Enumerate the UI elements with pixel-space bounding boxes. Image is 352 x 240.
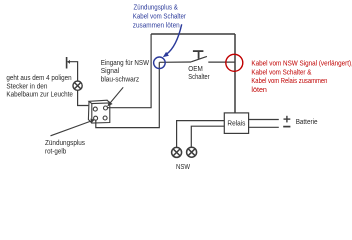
wire relay to lamp NSW left xyxy=(177,121,225,148)
wire plug to lamp xyxy=(68,62,78,82)
svg-text:Eingang für NSW: Eingang für NSW xyxy=(101,60,150,67)
svg-text:rot-gelb: rot-gelb xyxy=(45,148,66,155)
connector plug (4-pin Stecker to Leuchte) xyxy=(67,57,70,69)
lamp NSW right xyxy=(187,147,197,157)
switch S1 (OEM Schalter) xyxy=(191,51,207,62)
label: Eingang fuer NSW Signal blau-schwarz xyxy=(101,60,150,84)
svg-text:Kabel vom NSW Signal (verlänge: Kabel vom NSW Signal (verlängert), xyxy=(251,58,352,67)
svg-text:blau-schwarz: blau-schwarz xyxy=(101,77,140,84)
svg-text:geht aus dem 4 poligen: geht aus dem 4 poligen xyxy=(6,75,71,82)
svg-text:NSW: NSW xyxy=(176,164,190,171)
wire pin 2 to loop (right then up) xyxy=(107,34,151,108)
connector box X1 (4 poliger Stecker) xyxy=(88,100,109,123)
wire switch right terminal to junction xyxy=(208,61,235,63)
svg-text:Kabel vom Schalter: Kabel vom Schalter xyxy=(133,12,186,21)
wire lamp to connector box xyxy=(78,90,89,105)
label: Zuendungsplus rot-gelb xyxy=(45,140,85,155)
arrow from Zuendungsplus label to pin 3 xyxy=(51,119,95,136)
svg-text:Stecker in den: Stecker in den xyxy=(6,83,47,90)
relay K1 xyxy=(224,113,248,133)
blue curved arrow to blue circle xyxy=(163,24,182,57)
pin 2 (top-right, NSW Signal) xyxy=(104,106,108,110)
red highlight circle (solder junction) xyxy=(226,54,243,71)
wire pin 3 down, right and up to switch corner xyxy=(96,62,160,127)
label: OEM Schalter xyxy=(188,66,210,81)
blue highlight circle (solder point at switch corner) xyxy=(154,57,166,69)
svg-text:OEM: OEM xyxy=(188,66,203,73)
lamp NSW left xyxy=(172,147,182,157)
svg-text:Kabelbaum zur Leuchte: Kabelbaum zur Leuchte xyxy=(6,92,73,99)
svg-text:Schalter: Schalter xyxy=(188,74,210,81)
svg-text:zusammen löten: zusammen löten xyxy=(133,20,180,29)
svg-text:löten: löten xyxy=(251,85,267,94)
svg-text:Kabel vom Relais zusammen: Kabel vom Relais zusammen xyxy=(251,76,327,85)
wire relay to battery plus xyxy=(249,119,279,121)
battery plus terminal xyxy=(284,116,291,123)
pin 4 (bottom-right) xyxy=(103,116,107,120)
svg-text:Kabel vom Schalter &: Kabel vom Schalter & xyxy=(251,67,311,76)
wire right edge of loop down to relay xyxy=(234,34,236,113)
label: geht aus dem 4 poligen Stecker in den Kabelbaum zur Leuchte xyxy=(6,75,73,98)
wire relay to lamp NSW right xyxy=(191,126,224,147)
arrow from Eingang label to pin 2 xyxy=(107,87,123,106)
svg-text:Zündungsplus: Zündungsplus xyxy=(45,140,85,147)
red annotation text xyxy=(251,58,352,94)
svg-text:Zündungsplus &: Zündungsplus & xyxy=(134,3,178,12)
lamp L1 (Leuchte) xyxy=(73,81,82,90)
pin 1 (top-left) xyxy=(93,107,97,111)
wire switch corner to switch left terminal xyxy=(159,61,191,63)
svg-text:Batterie: Batterie xyxy=(296,119,318,126)
wire top edge of loop xyxy=(151,33,235,35)
wire relay to battery minus xyxy=(249,126,279,128)
battery minus terminal xyxy=(283,126,290,128)
pin 3 (bottom-left, Zuendungsplus) xyxy=(94,116,98,120)
svg-text:Relais: Relais xyxy=(227,121,245,128)
blue annotation text xyxy=(133,3,186,30)
svg-text:Signal: Signal xyxy=(101,68,120,75)
